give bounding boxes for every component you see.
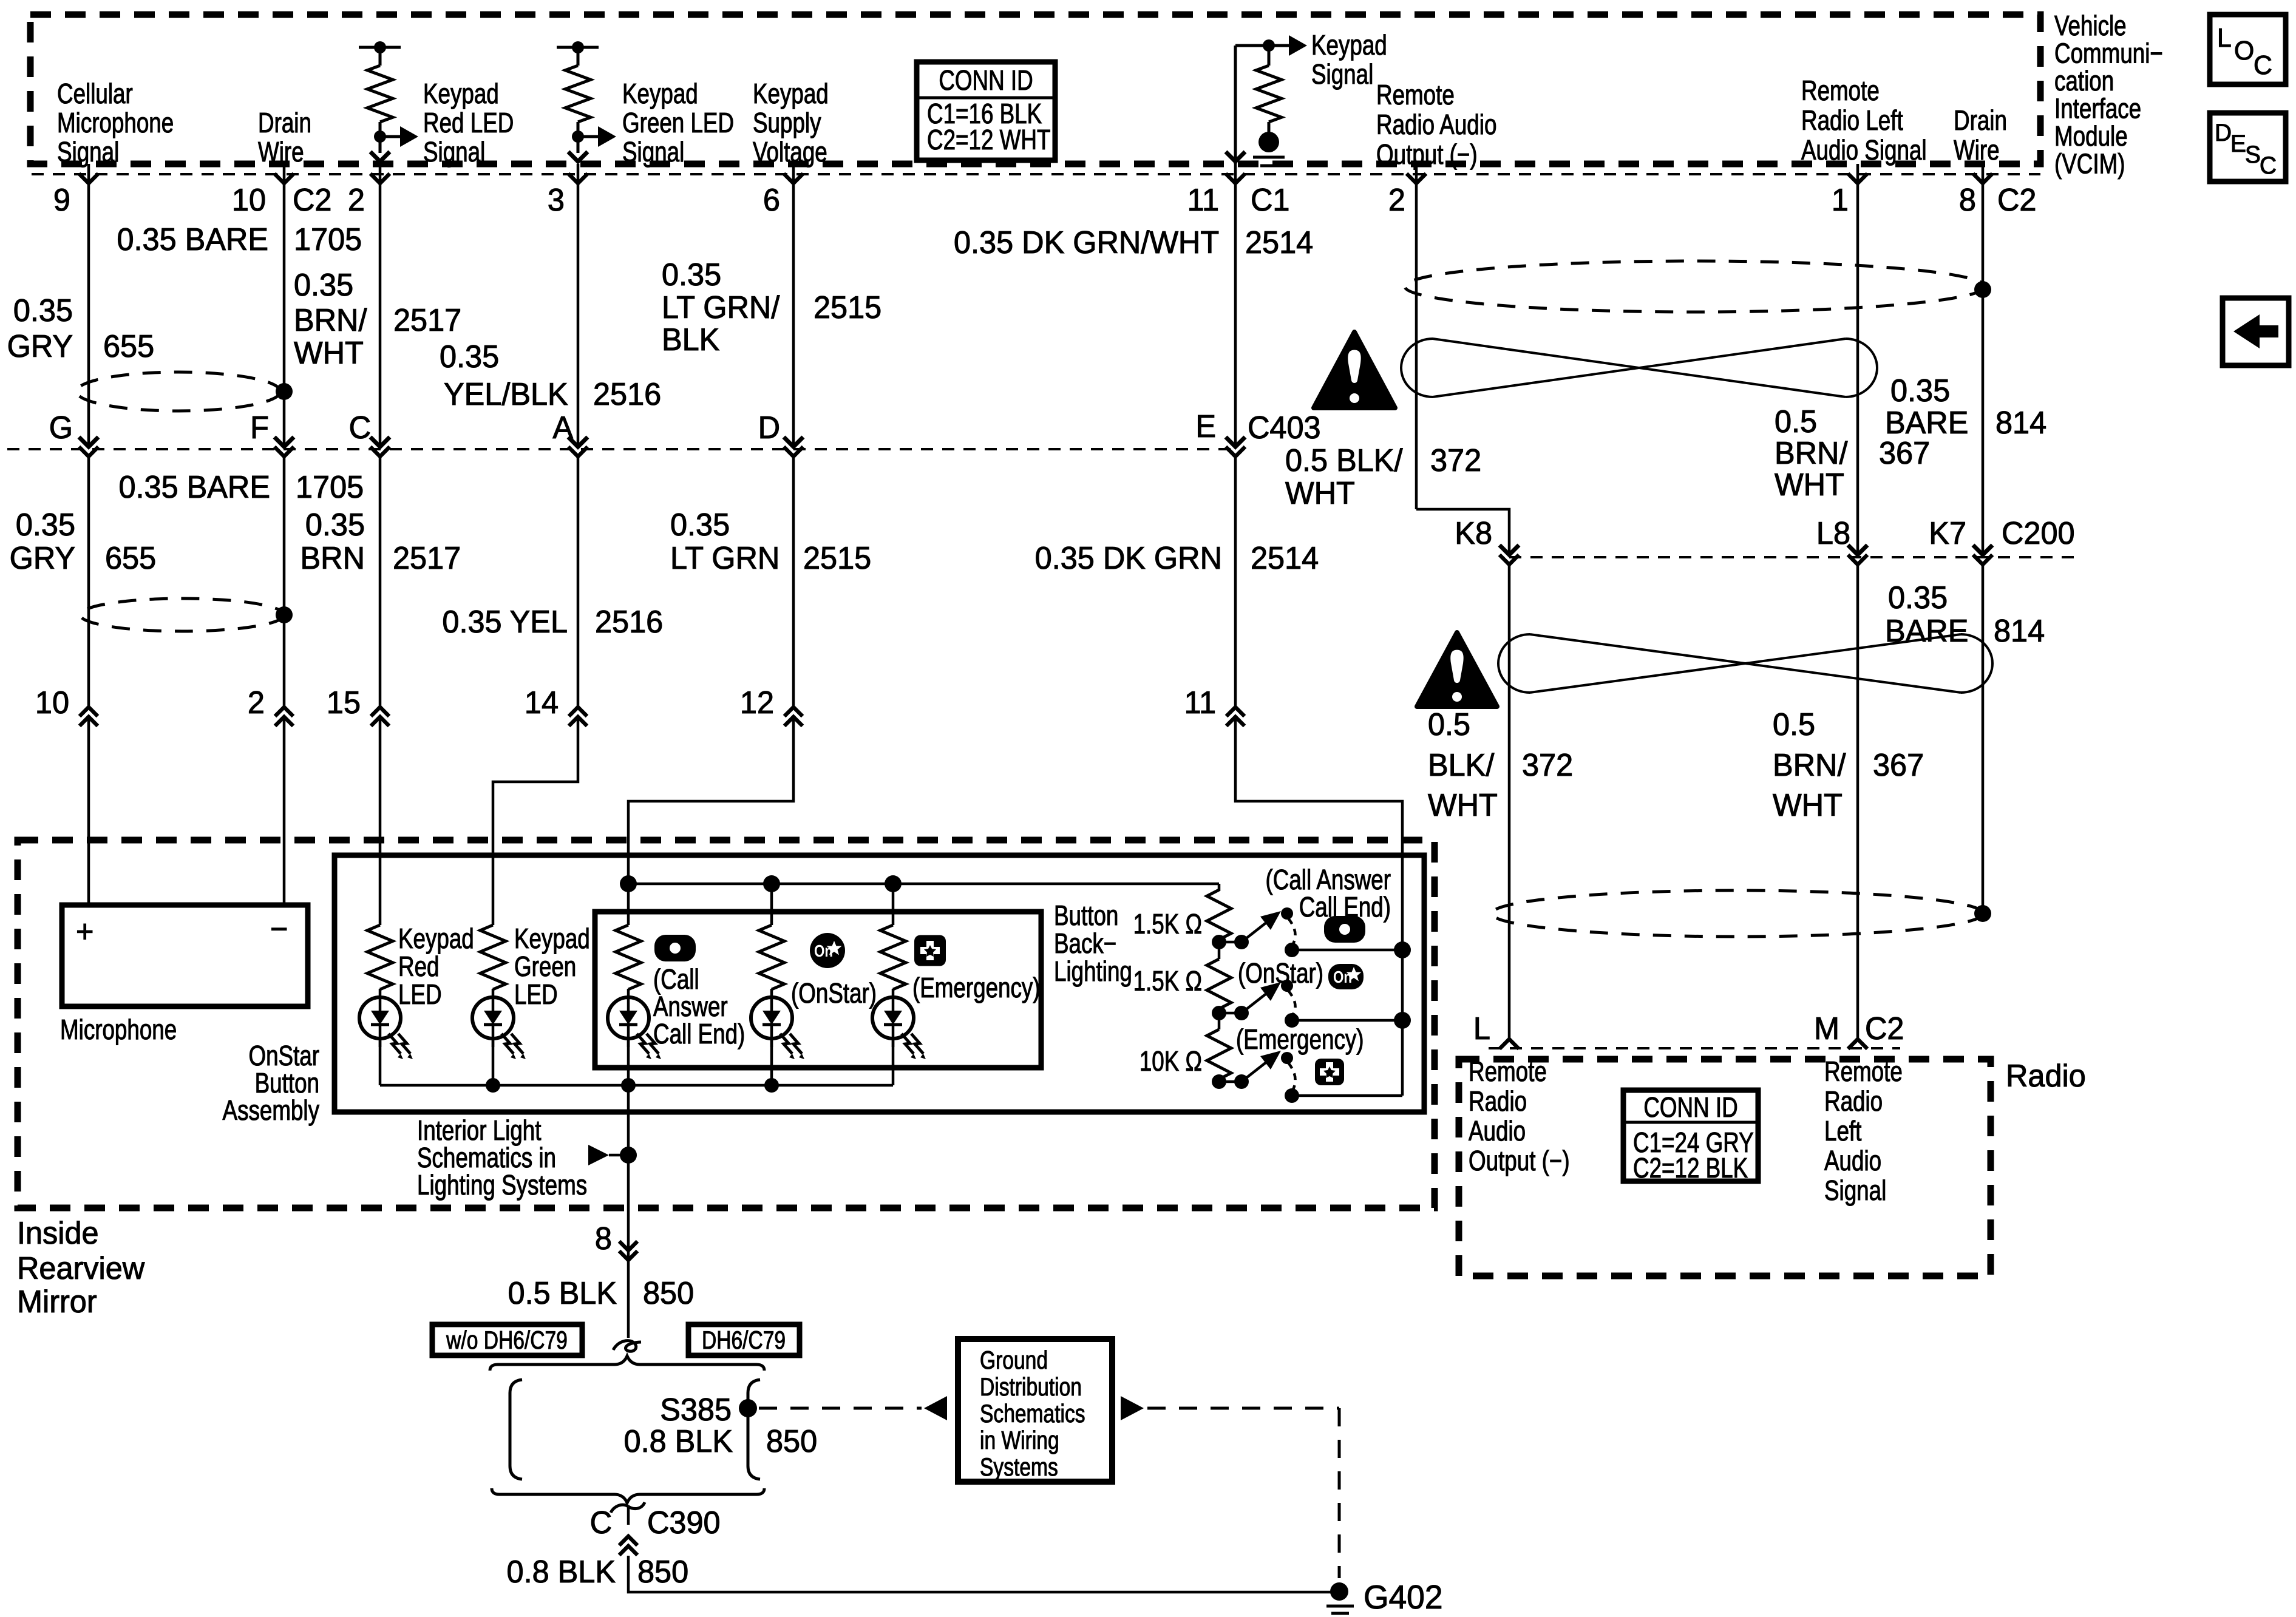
svg-text:Wire: Wire — [258, 136, 304, 168]
svg-text:Keypad: Keypad — [514, 923, 590, 954]
dashed shield ellipse right lower — [1492, 890, 1983, 937]
svg-text:Keypad: Keypad — [1311, 29, 1387, 61]
svg-text:2: 2 — [348, 182, 365, 217]
C403 connector line — [7, 448, 1235, 450]
svg-text:0.35 DK GRN: 0.35 DK GRN — [1035, 540, 1222, 575]
svg-text:10K Ω: 10K Ω — [1140, 1045, 1202, 1077]
DH6/C79 box — [688, 1324, 800, 1355]
svg-text:11: 11 — [1187, 182, 1219, 217]
svg-text:WHT: WHT — [1775, 467, 1844, 502]
interior light arrow — [588, 1145, 609, 1165]
back arrow box — [2223, 298, 2289, 365]
svg-text:E: E — [1195, 408, 1216, 444]
svg-text:Interface: Interface — [2054, 93, 2141, 124]
warning triangle 1 — [1314, 332, 1395, 408]
svg-text:L8: L8 — [1816, 515, 1850, 551]
svg-text:0.8 BLK: 0.8 BLK — [507, 1554, 616, 1589]
svg-text:w/o DH6/C79: w/o DH6/C79 — [446, 1327, 568, 1355]
svg-text:C2: C2 — [1865, 1011, 1904, 1046]
svg-text:LED: LED — [398, 978, 442, 1010]
svg-text:2515: 2515 — [813, 290, 881, 325]
svg-text:BLK/: BLK/ — [1428, 747, 1495, 782]
svg-text:Keypad: Keypad — [622, 78, 698, 109]
microphone box — [62, 905, 308, 1006]
svg-text:LT GRN/: LT GRN/ — [662, 290, 780, 325]
wire K8 to radio L — [1508, 564, 1511, 1039]
svg-text:Call End): Call End) — [653, 1018, 745, 1049]
VCIM LED driver resistor at x=626 — [359, 46, 401, 49]
svg-text:1705: 1705 — [296, 469, 364, 504]
svg-text:Remote: Remote — [1824, 1056, 1903, 1087]
svg-text:8: 8 — [1959, 182, 1976, 217]
svg-text:372: 372 — [1430, 442, 1481, 478]
ground wire 850 — [627, 1085, 630, 1338]
svg-text:1: 1 — [1832, 182, 1849, 217]
svg-text:0.5 BLK/: 0.5 BLK/ — [1285, 442, 1403, 478]
svg-text:10: 10 — [35, 685, 69, 720]
svg-text:BARE: BARE — [1885, 613, 1968, 648]
Radio dashed box — [1459, 1059, 1991, 1276]
VCIM module dashed box — [30, 15, 2040, 164]
svg-text:Lighting Systems: Lighting Systems — [417, 1169, 587, 1201]
svg-text:cation: cation — [2054, 65, 2114, 97]
svg-text:C390: C390 — [647, 1505, 721, 1540]
svg-text:Signal: Signal — [622, 136, 684, 168]
svg-text:Call End): Call End) — [1299, 891, 1391, 923]
svg-text:Signal: Signal — [423, 136, 485, 168]
keypad green LED — [480, 925, 506, 989]
svg-text:L: L — [1473, 1011, 1490, 1046]
svg-text:Radio: Radio — [2006, 1058, 2086, 1093]
svg-text:E: E — [2230, 130, 2246, 157]
svg-text:Back−: Back− — [1054, 927, 1116, 959]
svg-text:M: M — [1814, 1011, 1839, 1046]
VCIM LED driver resistor at x=952 — [557, 46, 599, 49]
svg-text:Systems: Systems — [980, 1454, 1058, 1482]
svg-text:On: On — [814, 942, 833, 961]
svg-text:Red LED: Red LED — [423, 107, 514, 138]
svg-text:C1: C1 — [1251, 182, 1289, 217]
svg-text:Output (−): Output (−) — [1469, 1145, 1570, 1176]
svg-text:BRN: BRN — [301, 540, 365, 575]
svg-text:LT GRN: LT GRN — [670, 540, 779, 575]
svg-text:0.35: 0.35 — [662, 257, 721, 292]
svg-text:BLK: BLK — [662, 322, 719, 357]
svg-text:Rearview: Rearview — [17, 1250, 145, 1286]
warning triangle 2 — [1417, 632, 1497, 707]
svg-text:BRN/: BRN/ — [294, 302, 367, 337]
svg-text:Green LED: Green LED — [622, 107, 734, 138]
svg-text:814: 814 — [1995, 405, 2046, 440]
svg-text:Inside: Inside — [17, 1215, 99, 1250]
svg-text:655: 655 — [103, 328, 154, 364]
svg-text:Signal: Signal — [1311, 58, 1373, 90]
svg-text:Keypad: Keypad — [398, 923, 474, 954]
svg-text:Audio Signal: Audio Signal — [1801, 134, 1927, 166]
wire 2 keypad red LED — [379, 164, 382, 447]
svg-text:+: + — [76, 914, 93, 949]
svg-text:Audio: Audio — [1824, 1145, 1881, 1176]
wires C403 to chevron row — [87, 456, 90, 707]
svg-text:(Emergency): (Emergency) — [912, 972, 1041, 1003]
svg-text:3: 3 — [548, 182, 565, 217]
svg-text:K8: K8 — [1455, 515, 1492, 551]
svg-text:C: C — [2254, 50, 2272, 80]
radio connector line — [1489, 1047, 1900, 1049]
svg-text:Output (−): Output (−) — [1376, 138, 1478, 170]
svg-text:2515: 2515 — [803, 540, 871, 575]
S385 dashed link right — [1121, 1396, 1144, 1420]
svg-text:(OnStar): (OnStar) — [1238, 957, 1323, 989]
svg-text:CONN ID: CONN ID — [939, 64, 1033, 96]
svg-text:Audio: Audio — [1469, 1115, 1526, 1147]
svg-text:WHT: WHT — [1428, 787, 1498, 822]
svg-text:367: 367 — [1879, 435, 1930, 470]
svg-text:12: 12 — [740, 685, 774, 720]
svg-text:Left: Left — [1824, 1115, 1862, 1147]
svg-text:YEL/BLK: YEL/BLK — [444, 376, 568, 412]
svg-text:Remote: Remote — [1801, 75, 1880, 106]
wire 6 keypad supply — [792, 164, 795, 447]
svg-text:2517: 2517 — [393, 302, 461, 337]
svg-text:9: 9 — [53, 182, 70, 217]
wire 8 drain right — [1982, 164, 1985, 555]
svg-text:0.8 BLK: 0.8 BLK — [624, 1423, 733, 1459]
svg-text:Communi−: Communi− — [2054, 38, 2163, 69]
svg-text:814: 814 — [1994, 613, 2045, 648]
shield ellipse 1 — [76, 372, 280, 411]
twisted pair 2 — [1530, 634, 1961, 693]
svg-text:G: G — [49, 410, 73, 445]
svg-text:On: On — [1333, 968, 1352, 987]
svg-text:DH6/C79: DH6/C79 — [702, 1327, 786, 1355]
svg-text:0.35: 0.35 — [305, 507, 365, 542]
wire supply jog — [628, 717, 793, 884]
svg-text:Mirror: Mirror — [17, 1284, 97, 1319]
branch w/o splice — [510, 1380, 522, 1479]
VCIM keypad signal pullup resistor and ground — [1234, 46, 1237, 164]
wire break symbol — [613, 1341, 641, 1352]
wire 3 keypad green LED — [577, 164, 580, 447]
Ground Distribution Schematics box — [958, 1339, 1112, 1482]
svg-text:C: C — [590, 1505, 612, 1540]
svg-text:655: 655 — [105, 540, 156, 575]
svg-text:850: 850 — [637, 1554, 688, 1589]
keypad red LED — [367, 925, 393, 989]
svg-text:Radio Audio: Radio Audio — [1376, 109, 1496, 140]
ground run to G402 — [628, 1556, 1339, 1592]
svg-text:C2=12 BLK: C2=12 BLK — [1633, 1152, 1748, 1184]
CONN ID box radio — [1623, 1090, 1758, 1181]
backlighting resistor chain — [1218, 884, 1221, 891]
svg-text:(VCIM): (VCIM) — [2054, 148, 2125, 180]
svg-text:2516: 2516 — [593, 376, 661, 412]
svg-text:Drain: Drain — [1954, 104, 2007, 136]
bottom LED bus — [380, 1084, 893, 1087]
svg-text:Voltage: Voltage — [753, 136, 827, 168]
svg-text:Schematics: Schematics — [980, 1400, 1085, 1428]
svg-text:Microphone: Microphone — [57, 107, 174, 138]
svg-text:10: 10 — [232, 182, 266, 217]
svg-text:Radio: Radio — [1824, 1085, 1883, 1117]
svg-text:Signal: Signal — [1824, 1175, 1886, 1206]
wire 372 jog to K8 — [1416, 509, 1509, 555]
svg-text:C: C — [349, 410, 371, 445]
svg-text:1.5K Ω: 1.5K Ω — [1133, 908, 1202, 940]
svg-text:A: A — [552, 410, 573, 445]
svg-text:0.35 BARE: 0.35 BARE — [118, 469, 270, 504]
svg-text:0.35: 0.35 — [1890, 373, 1950, 408]
svg-text:S385: S385 — [660, 1392, 732, 1427]
svg-text:0.35: 0.35 — [16, 507, 75, 542]
emergency LED — [892, 884, 895, 925]
svg-text:0.35: 0.35 — [670, 507, 730, 542]
svg-text:0.35: 0.35 — [294, 267, 353, 302]
svg-text:367: 367 — [1873, 747, 1924, 782]
svg-text:GRY: GRY — [10, 540, 75, 575]
svg-text:Wire: Wire — [1954, 134, 2000, 166]
svg-text:1705: 1705 — [294, 222, 362, 257]
svg-text:BRN/: BRN/ — [1773, 747, 1846, 782]
svg-text:Remote: Remote — [1376, 79, 1455, 110]
wire 10 drain — [283, 164, 286, 447]
svg-text:0.35: 0.35 — [440, 339, 499, 374]
svg-text:Button: Button — [1054, 900, 1118, 931]
switch call answer — [1219, 941, 1241, 944]
svg-text:O: O — [2234, 36, 2254, 66]
svg-text:11: 11 — [1184, 685, 1216, 720]
twisted pair 1 — [1433, 339, 1846, 397]
inner button box — [595, 912, 1041, 1068]
svg-text:Distribution: Distribution — [980, 1374, 1082, 1402]
wire 2 remote radio audio output — [1415, 164, 1418, 509]
svg-text:GRY: GRY — [7, 328, 73, 364]
drain wire end dot — [1974, 905, 1991, 922]
wire keypad signal jog — [1235, 717, 1402, 1096]
svg-text:850: 850 — [766, 1423, 817, 1459]
svg-text:BARE: BARE — [1885, 405, 1968, 440]
svg-text:8: 8 — [595, 1221, 612, 1256]
svg-text:Microphone: Microphone — [60, 1014, 177, 1045]
svg-text:Drain: Drain — [258, 107, 311, 138]
inline connector chevrons row — [80, 707, 98, 716]
wire to microphone + — [87, 717, 90, 905]
svg-text:−: − — [270, 911, 288, 946]
svg-text:Supply: Supply — [753, 107, 821, 138]
svg-text:Radio: Radio — [1469, 1085, 1527, 1117]
svg-text:6: 6 — [763, 182, 780, 217]
svg-text:WHT: WHT — [294, 335, 364, 370]
branch with S385 splice — [748, 1380, 760, 1479]
top supply bus — [628, 883, 1219, 886]
svg-text:0.35 DK GRN/WHT: 0.35 DK GRN/WHT — [954, 225, 1219, 260]
svg-text:C403: C403 — [1248, 410, 1321, 445]
svg-text:1.5K Ω: 1.5K Ω — [1133, 965, 1202, 997]
svg-text:K7: K7 — [1929, 515, 1966, 551]
svg-text:C2: C2 — [293, 182, 331, 217]
LOC box — [2210, 15, 2286, 84]
ground G402 — [1330, 1582, 1348, 1601]
svg-text:D: D — [2215, 119, 2232, 146]
svg-text:2: 2 — [248, 685, 265, 720]
wire to microphone - — [283, 717, 286, 905]
svg-text:0.35 BARE: 0.35 BARE — [117, 222, 268, 257]
svg-text:Radio Left: Radio Left — [1801, 104, 1903, 136]
svg-text:14: 14 — [525, 685, 559, 720]
svg-text:C2: C2 — [1997, 182, 2036, 217]
svg-text:(Emergency): (Emergency) — [1236, 1023, 1364, 1055]
wire 11 keypad signal — [1234, 164, 1237, 447]
wire 9 cellular microphone — [87, 164, 90, 447]
svg-text:Keypad: Keypad — [423, 78, 499, 109]
svg-text:2514: 2514 — [1251, 540, 1319, 575]
svg-text:Keypad: Keypad — [753, 78, 829, 109]
Inside Rearview Mirror dashed box — [18, 840, 1435, 1208]
svg-text:D: D — [758, 410, 780, 445]
VCIM connector line C1/C2 — [32, 173, 2040, 175]
onstar LED — [770, 884, 773, 925]
svg-text:C2=12 WHT: C2=12 WHT — [927, 124, 1050, 155]
CONN ID box VCIM — [917, 62, 1055, 160]
svg-text:Remote: Remote — [1469, 1056, 1547, 1087]
svg-text:Module: Module — [2054, 120, 2128, 152]
svg-text:Signal: Signal — [57, 136, 119, 168]
svg-text:Vehicle: Vehicle — [2054, 10, 2127, 41]
wire green LED jog — [493, 717, 578, 925]
svg-text:G402: G402 — [1364, 1579, 1442, 1616]
svg-text:0.35: 0.35 — [13, 293, 73, 328]
C200 connector line — [1509, 556, 2082, 558]
w/o DH6/C79 box — [432, 1324, 582, 1355]
svg-text:850: 850 — [643, 1275, 694, 1310]
dashed shield ellipse right top — [1405, 261, 1985, 312]
brace bottom — [492, 1488, 764, 1503]
svg-text:0.35 YEL: 0.35 YEL — [442, 604, 568, 639]
svg-text:0.5: 0.5 — [1773, 707, 1815, 742]
svg-text:0.5: 0.5 — [1775, 404, 1817, 439]
brace top — [490, 1356, 764, 1371]
svg-text:2516: 2516 — [595, 604, 663, 639]
svg-text:WHT: WHT — [1285, 475, 1355, 510]
wire red LED — [379, 717, 382, 925]
svg-text:Cellular: Cellular — [57, 78, 133, 109]
svg-text:(OnStar): (OnStar) — [791, 977, 877, 1009]
svg-text:in Wiring: in Wiring — [980, 1427, 1059, 1455]
svg-text:C200: C200 — [2002, 515, 2075, 551]
svg-text:2514: 2514 — [1245, 225, 1313, 260]
svg-text:CONN ID: CONN ID — [1643, 1091, 1737, 1123]
svg-text:LED: LED — [514, 978, 558, 1010]
switch icons right — [1324, 916, 1365, 943]
call answer LED — [627, 884, 630, 925]
svg-text:2517: 2517 — [393, 540, 461, 575]
svg-text:Green: Green — [514, 951, 576, 982]
svg-text:0.5: 0.5 — [1428, 707, 1470, 742]
svg-text:C: C — [2260, 152, 2277, 179]
DESC box — [2210, 113, 2286, 181]
svg-text:0.5 BLK: 0.5 BLK — [508, 1275, 617, 1310]
svg-text:Red: Red — [398, 951, 439, 982]
svg-text:0.35: 0.35 — [1888, 580, 1948, 615]
S385 dashed link left — [759, 1407, 922, 1410]
svg-text:Ground: Ground — [980, 1347, 1048, 1375]
wire 1 remote radio left audio — [1856, 164, 1860, 555]
svg-text:Lighting: Lighting — [1054, 955, 1132, 987]
svg-text:372: 372 — [1522, 747, 1573, 782]
svg-text:15: 15 — [327, 685, 361, 720]
svg-text:L: L — [2217, 23, 2232, 53]
svg-text:BRN/: BRN/ — [1775, 435, 1848, 470]
svg-text:2: 2 — [1388, 182, 1405, 217]
svg-text:S: S — [2245, 141, 2261, 168]
shield ellipse 2 — [80, 598, 284, 631]
OnStar Button Assembly box — [335, 855, 1424, 1112]
svg-text:WHT: WHT — [1773, 787, 1843, 822]
C390 inline connector — [611, 1505, 628, 1513]
svg-text:F: F — [250, 410, 269, 445]
svg-text:Assembly: Assembly — [223, 1094, 320, 1126]
